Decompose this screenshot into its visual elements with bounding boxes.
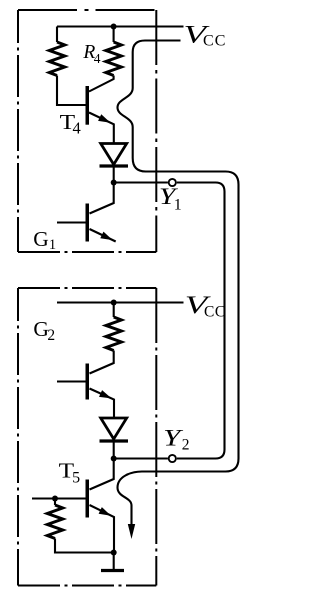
gate G2 dash-dot boundary box	[18, 287, 156, 289]
node Y2	[111, 456, 117, 462]
transistor T5	[90, 459, 114, 490]
resistor (T5 base-emitter resistor)	[54, 499, 56, 506]
svg-text:4: 4	[73, 119, 81, 138]
current path line (from Vcc through T4, D1 to Y1)	[118, 41, 239, 525]
resistor (G2 collector resistor)	[113, 303, 115, 318]
svg-text:CC: CC	[203, 32, 227, 49]
wire: Y1 node to terminal	[114, 181, 168, 183]
transistor (G2 phase splitter)	[90, 351, 114, 374]
svg-text:1: 1	[174, 197, 182, 214]
terminal Y1 (open circle)	[169, 179, 176, 186]
node: rail junction G1	[111, 24, 117, 30]
resistor (T4 base feed, G1 left)	[56, 27, 58, 43]
svg-text:1: 1	[49, 237, 56, 253]
resistor R4	[113, 27, 115, 43]
diode D2 (G2 output diode)	[101, 418, 127, 439]
diode D1 (G1 output diode)	[101, 144, 127, 165]
gate G1 dash-dot boundary box	[18, 9, 156, 11]
ground	[113, 553, 115, 570]
node: T5 base junction	[52, 496, 58, 502]
svg-text:2: 2	[182, 437, 190, 454]
wire: Y2 node to terminal	[114, 457, 168, 459]
node: T5 emitter junction	[111, 550, 117, 556]
svg-text:CC: CC	[204, 303, 226, 320]
Vcc rail G2	[57, 301, 184, 303]
wire: left resistor to T4 base	[57, 76, 86, 106]
svg-text:Y: Y	[163, 426, 183, 451]
svg-text:4: 4	[94, 51, 101, 66]
transistor (G1 pull-down phase splitter)	[90, 183, 114, 214]
terminal Y2 (open circle)	[169, 455, 176, 462]
node Y1	[111, 180, 117, 186]
node: rail junction G2	[111, 300, 117, 306]
transistor T4	[89, 76, 114, 92]
svg-text:5: 5	[72, 469, 80, 486]
wire: resistor bottom to emitter node	[55, 539, 114, 553]
svg-text:G: G	[33, 227, 49, 251]
Vcc rail G1	[57, 25, 184, 27]
current path arrowhead	[128, 524, 135, 539]
wire Y1 to Y2 (external connection)	[177, 183, 225, 459]
svg-text:2: 2	[47, 327, 55, 344]
